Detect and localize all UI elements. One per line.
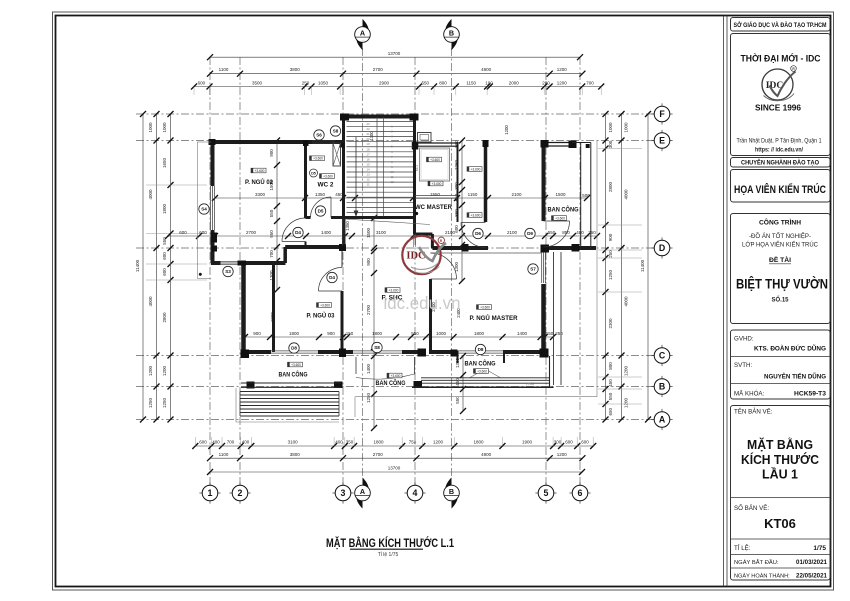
svg-text:1550: 1550 bbox=[430, 192, 441, 197]
stair cut line bbox=[345, 219, 430, 225]
grid bubble 3 bbox=[332, 492, 336, 494]
svg-text:F: F bbox=[659, 109, 665, 119]
svg-text:A: A bbox=[360, 487, 365, 496]
section axis B vertical bbox=[451, 48, 453, 478]
svg-text:350: 350 bbox=[346, 440, 354, 445]
svg-text:1350: 1350 bbox=[345, 221, 350, 231]
vent shaft with X bbox=[333, 143, 341, 166]
wall stair left bbox=[342, 117, 345, 249]
svg-text:3300: 3300 bbox=[255, 192, 266, 197]
interior dimension row upper bbox=[215, 197, 587, 199]
svg-text:2300: 2300 bbox=[608, 318, 613, 329]
wall bedroom3 shc divider grid3 bbox=[341, 250, 343, 267]
svg-text:1250: 1250 bbox=[148, 397, 153, 408]
svg-text:4900: 4900 bbox=[481, 67, 492, 72]
svg-text:P. NGỦ MASTER: P. NGỦ MASTER bbox=[470, 313, 518, 322]
label D8 a bbox=[289, 343, 299, 353]
svg-text:1000: 1000 bbox=[436, 331, 447, 336]
section marker A bottom bbox=[363, 478, 370, 498]
svg-text:400: 400 bbox=[335, 440, 343, 445]
eave outline bottom-left bbox=[235, 388, 237, 422]
svg-text:+3.600: +3.600 bbox=[313, 157, 323, 161]
svg-text:500: 500 bbox=[582, 193, 590, 198]
svg-text:2700: 2700 bbox=[373, 67, 384, 72]
svg-text:200: 200 bbox=[542, 81, 550, 86]
balcony jamb stubs bbox=[457, 351, 459, 363]
section marker A top bbox=[363, 19, 370, 39]
door D9 balcony arc bbox=[544, 220, 570, 222]
svg-text:E: E bbox=[659, 136, 665, 146]
stair side walls thin lower bbox=[342, 219, 344, 246]
title box logo section bbox=[731, 34, 831, 156]
svg-text:600: 600 bbox=[454, 225, 459, 233]
svg-text:2700: 2700 bbox=[366, 304, 371, 315]
svg-text:CHUYÊN NGHÀNH ĐÀO TẠO: CHUYÊN NGHÀNH ĐÀO TẠO bbox=[741, 158, 819, 167]
idc logo stamp circle bbox=[402, 236, 440, 274]
svg-text:+3.600: +3.600 bbox=[320, 303, 330, 307]
balcony rail vertical right bbox=[549, 356, 551, 387]
svg-text:11: 11 bbox=[366, 183, 369, 187]
svg-text:BIỆT THỰ VƯỜN: BIỆT THỰ VƯỜN bbox=[736, 275, 828, 292]
svg-text:150: 150 bbox=[546, 331, 554, 336]
lower-right envelope band bbox=[553, 252, 555, 385]
svg-text:1800: 1800 bbox=[473, 440, 484, 445]
svg-text:16: 16 bbox=[366, 157, 370, 161]
svg-text:+3.600: +3.600 bbox=[480, 305, 490, 309]
wall shc master divider bbox=[429, 279, 432, 354]
svg-text:SVTH:: SVTH: bbox=[734, 362, 753, 369]
eave outline left bbox=[196, 142, 198, 278]
wall grid D bedroom3 top bbox=[285, 245, 345, 249]
svg-text:+3.600: +3.600 bbox=[255, 169, 265, 173]
title box ten ban ve bbox=[731, 406, 831, 581]
shower zone wc master bbox=[420, 148, 450, 181]
wall left exterior lower bbox=[211, 230, 215, 263]
door master bedroom arc bbox=[431, 278, 457, 280]
svg-text:1800: 1800 bbox=[162, 203, 167, 214]
svg-text:BAN CÔNG: BAN CÔNG bbox=[376, 378, 406, 387]
label S8 mid bbox=[372, 342, 382, 352]
svg-text:450: 450 bbox=[608, 379, 613, 387]
stair stringer bbox=[376, 117, 378, 217]
svg-text:550: 550 bbox=[422, 81, 430, 86]
svg-text:Trần Nhật Duật, P Tân Định, Qu: Trần Nhật Duật, P Tân Định, Quận 1 bbox=[737, 139, 823, 145]
svg-text:D9: D9 bbox=[527, 231, 533, 236]
eave outline right bbox=[596, 140, 598, 397]
svg-text:3: 3 bbox=[341, 488, 346, 498]
window lines in bottom openings bbox=[271, 350, 318, 352]
svg-text:S4: S4 bbox=[201, 207, 207, 212]
svg-text:1500: 1500 bbox=[555, 192, 566, 197]
right dimension column level2 bbox=[621, 114, 623, 420]
wc2 small label D5 bbox=[310, 169, 318, 177]
right dimension column details bbox=[605, 114, 607, 420]
svg-text:1200: 1200 bbox=[557, 67, 568, 72]
door D5 wc2 arc bbox=[330, 197, 332, 218]
balcony rail top-right bbox=[580, 143, 582, 251]
svg-text:idc.edu.vn: idc.edu.vn bbox=[384, 293, 461, 313]
svg-text:KÍCH THƯỚC: KÍCH THƯỚC bbox=[741, 452, 819, 467]
bottom dimension chain level2 bbox=[210, 457, 582, 459]
svg-text:2800: 2800 bbox=[162, 312, 167, 323]
svg-text:22: 22 bbox=[366, 127, 370, 131]
title block logo R mark bbox=[791, 66, 797, 72]
window S3 bottom-left bbox=[221, 261, 238, 263]
svg-text:1400: 1400 bbox=[321, 230, 332, 235]
wall corridor east grid5 bbox=[542, 141, 546, 221]
elevation tags bbox=[251, 168, 266, 173]
svg-text:22/05/2021: 22/05/2021 bbox=[796, 573, 828, 580]
svg-text:750: 750 bbox=[409, 440, 417, 445]
svg-text:13700: 13700 bbox=[388, 51, 401, 56]
window S6 top wall bbox=[312, 139, 335, 141]
svg-text:Tỉ lệ 1/75: Tỉ lệ 1/75 bbox=[378, 551, 399, 558]
svg-text:10: 10 bbox=[390, 170, 394, 174]
svg-text:1200: 1200 bbox=[162, 365, 167, 376]
svg-text:P. NGỦ 02: P. NGỦ 02 bbox=[245, 177, 273, 186]
svg-text:5: 5 bbox=[544, 488, 549, 498]
svg-text:1800: 1800 bbox=[289, 331, 300, 336]
svg-text:HỌA VIÊN KIẾN TRÚC: HỌA VIÊN KIẾN TRÚC bbox=[734, 183, 826, 196]
wall bedroom2 wc2 divider bbox=[304, 142, 307, 218]
grid bubble 6 bbox=[569, 492, 573, 494]
svg-text:BAN CÔNG: BAN CÔNG bbox=[279, 370, 308, 379]
terrace eave lower bbox=[355, 396, 597, 398]
svg-text:600: 600 bbox=[199, 230, 207, 235]
svg-text:1000: 1000 bbox=[623, 122, 628, 133]
bottom dimension chain total 13700 bbox=[210, 471, 582, 473]
columns filled bbox=[209, 139, 216, 145]
svg-text:….: …. bbox=[450, 496, 454, 500]
svg-text:450: 450 bbox=[455, 378, 460, 386]
svg-text:CÔNG TRÌNH: CÔNG TRÌNH bbox=[759, 217, 801, 226]
svg-text:THỜI ĐẠI MỚI - IDC: THỜI ĐẠI MỚI - IDC bbox=[741, 53, 821, 64]
svg-text:1000: 1000 bbox=[608, 122, 613, 133]
svg-text:4000: 4000 bbox=[148, 296, 153, 307]
svg-text:….: …. bbox=[361, 38, 365, 42]
svg-text:6: 6 bbox=[578, 488, 583, 498]
balcony parapet bottom-right bbox=[421, 377, 550, 379]
label D4 a bbox=[293, 227, 303, 237]
svg-text:1300: 1300 bbox=[369, 131, 374, 141]
grid bubble E bbox=[651, 140, 655, 142]
svg-text:14: 14 bbox=[366, 167, 370, 171]
svg-text:+3.600: +3.600 bbox=[471, 213, 481, 217]
svg-text:WC MASTER: WC MASTER bbox=[415, 204, 452, 211]
small dot marker bbox=[199, 273, 202, 276]
svg-text:2900: 2900 bbox=[379, 81, 390, 86]
idc logo stamp R mark bbox=[438, 237, 444, 243]
wall jog x285 bbox=[283, 247, 287, 263]
svg-text:1/75: 1/75 bbox=[813, 545, 826, 552]
svg-text:13: 13 bbox=[366, 173, 370, 177]
label D9 bbox=[525, 228, 535, 238]
label S7 bbox=[528, 264, 538, 274]
svg-text:1800: 1800 bbox=[372, 331, 383, 336]
svg-text:2700: 2700 bbox=[373, 452, 384, 457]
svg-text:1300: 1300 bbox=[455, 357, 460, 368]
svg-text:1000: 1000 bbox=[148, 122, 153, 133]
title box so giao duc bbox=[731, 18, 831, 32]
wall corridor west bbox=[484, 142, 488, 222]
svg-text:B: B bbox=[449, 487, 454, 496]
right dimension column total 11400 bbox=[647, 114, 649, 420]
door D4 bedroom2 arc bbox=[282, 241, 306, 243]
svg-text:4000: 4000 bbox=[623, 189, 628, 200]
grid bubble C bbox=[651, 355, 655, 357]
svg-text:11: 11 bbox=[390, 175, 393, 179]
svg-text:600: 600 bbox=[565, 440, 573, 445]
svg-text:D6: D6 bbox=[475, 231, 481, 236]
label S3 bbox=[223, 266, 233, 276]
svg-text:15: 15 bbox=[366, 162, 370, 166]
top dimension chain details bbox=[194, 86, 601, 88]
svg-text:S8: S8 bbox=[333, 129, 339, 134]
svg-text:250: 250 bbox=[302, 81, 310, 86]
svg-text:600: 600 bbox=[199, 440, 207, 445]
svg-text:1900: 1900 bbox=[522, 440, 533, 445]
svg-text:1100: 1100 bbox=[219, 67, 229, 72]
svg-text:….: …. bbox=[450, 38, 454, 42]
svg-text:SỞ GIÁO DỤC VÀ ĐÀO TẠO TP.HCM: SỞ GIÁO DỤC VÀ ĐÀO TẠO TP.HCM bbox=[734, 20, 827, 29]
svg-text:900: 900 bbox=[608, 233, 613, 241]
svg-text:1400: 1400 bbox=[366, 363, 371, 374]
balcony door swing lines bbox=[470, 370, 484, 378]
svg-text:D4: D4 bbox=[295, 230, 301, 235]
door D4 bedroom3 arc bbox=[319, 290, 343, 292]
svg-text:1200: 1200 bbox=[433, 440, 444, 445]
svg-text:1200: 1200 bbox=[623, 365, 628, 376]
svg-text:TÊN BẢN VẼ:: TÊN BẢN VẼ: bbox=[734, 408, 773, 416]
svg-text:3800: 3800 bbox=[290, 452, 301, 457]
door S8 balcony swing bbox=[355, 357, 357, 374]
svg-text:600: 600 bbox=[179, 230, 187, 235]
svg-text:950: 950 bbox=[269, 230, 274, 238]
wall E between columns bbox=[548, 142, 570, 144]
grid bubble 1 bbox=[199, 492, 203, 494]
svg-text:550: 550 bbox=[548, 230, 556, 235]
svg-text:+3.600: +3.600 bbox=[323, 174, 333, 178]
svg-text:550: 550 bbox=[269, 209, 274, 217]
svg-text:11400: 11400 bbox=[640, 259, 645, 272]
svg-text:1100: 1100 bbox=[219, 452, 229, 457]
label S8 top bbox=[330, 126, 340, 136]
wall master right grid5 lower bbox=[541, 284, 546, 354]
grid axis horizontals A-F bbox=[136, 113, 654, 115]
svg-text:MẶT BẰNG KÍCH THƯỚC L.1: MẶT BẰNG KÍCH THƯỚC L.1 bbox=[326, 537, 454, 550]
balcony rail bottom-left bbox=[241, 382, 341, 384]
label D8 b bbox=[475, 344, 485, 354]
svg-text:20: 20 bbox=[366, 137, 370, 141]
svg-text:12: 12 bbox=[390, 180, 394, 184]
svg-text:BAN CÔNG: BAN CÔNG bbox=[548, 205, 579, 214]
svg-text:600: 600 bbox=[581, 440, 589, 445]
svg-text:KTS. ĐOÀN ĐỨC DŨNG: KTS. ĐOÀN ĐỨC DŨNG bbox=[754, 344, 826, 353]
svg-text:700: 700 bbox=[227, 440, 235, 445]
svg-text:B: B bbox=[659, 382, 665, 392]
wall stair right bbox=[413, 117, 416, 235]
svg-text:2100: 2100 bbox=[511, 192, 522, 197]
svg-text:1350: 1350 bbox=[315, 192, 326, 197]
svg-text:600: 600 bbox=[198, 81, 206, 86]
svg-text:300: 300 bbox=[608, 140, 613, 148]
svg-text:900: 900 bbox=[366, 258, 371, 266]
svg-text:S3: S3 bbox=[225, 269, 231, 274]
svg-text:https: // idc.edu.vn/: https: // idc.edu.vn/ bbox=[755, 148, 803, 154]
stair treads bbox=[347, 121, 414, 123]
svg-text:A: A bbox=[360, 29, 365, 38]
wc master tub partition bbox=[415, 195, 457, 197]
svg-text:C: C bbox=[659, 351, 666, 361]
wall bottom-left horizontal bbox=[211, 261, 221, 265]
svg-text:4000: 4000 bbox=[623, 296, 628, 307]
top stepout box bbox=[418, 133, 432, 143]
svg-text:2700: 2700 bbox=[246, 230, 257, 235]
svg-text:+3.600: +3.600 bbox=[389, 288, 399, 292]
svg-text:1200: 1200 bbox=[623, 397, 628, 408]
svg-text:+3.600: +3.600 bbox=[477, 369, 487, 373]
svg-text:D5: D5 bbox=[318, 209, 324, 214]
svg-text:550: 550 bbox=[608, 392, 613, 400]
svg-text:3100: 3100 bbox=[288, 440, 299, 445]
svg-text:D4: D4 bbox=[329, 275, 335, 280]
svg-text:B: B bbox=[449, 29, 454, 38]
svg-text:+3.600: +3.600 bbox=[291, 363, 301, 367]
title box chuyen nghanh bbox=[731, 158, 831, 168]
svg-text:1050: 1050 bbox=[318, 81, 329, 86]
svg-text:250: 250 bbox=[555, 331, 563, 336]
section marker B bottom bbox=[445, 478, 452, 498]
title box cong trinh bbox=[731, 214, 831, 324]
svg-text:600: 600 bbox=[162, 252, 167, 260]
grid bubble B bbox=[651, 386, 655, 388]
stair bottom wall bbox=[345, 216, 414, 219]
svg-text:400: 400 bbox=[212, 440, 220, 445]
svg-text:2: 2 bbox=[238, 488, 243, 498]
svg-text:A: A bbox=[659, 415, 666, 425]
svg-text:100: 100 bbox=[485, 81, 493, 86]
svg-text:P. NGỦ 03: P. NGỦ 03 bbox=[307, 311, 335, 320]
svg-text:1250: 1250 bbox=[162, 397, 167, 408]
wall grid D wc master bottom bbox=[432, 246, 488, 250]
interior dimension row lower bbox=[245, 336, 553, 338]
svg-text:S8: S8 bbox=[374, 345, 380, 350]
svg-text:1250: 1250 bbox=[608, 269, 613, 280]
wall top of wc master bbox=[415, 142, 458, 144]
svg-text:650: 650 bbox=[608, 407, 613, 415]
svg-text:D8: D8 bbox=[478, 347, 484, 352]
svg-text:800: 800 bbox=[439, 81, 447, 86]
svg-text:900: 900 bbox=[269, 149, 274, 157]
title box gvhd svth bbox=[731, 330, 831, 399]
svg-text:150: 150 bbox=[346, 331, 354, 336]
label S4 bbox=[199, 204, 209, 214]
svg-text:3100: 3100 bbox=[376, 230, 387, 235]
svg-text:4000: 4000 bbox=[148, 189, 153, 200]
svg-text:12: 12 bbox=[366, 178, 370, 182]
wall partition wc master closet bbox=[457, 142, 459, 222]
svg-text:900: 900 bbox=[253, 331, 261, 336]
svg-text:1200: 1200 bbox=[557, 81, 568, 86]
wall top of bedroom2 and wc2 grid E bbox=[211, 140, 344, 144]
wall top of stair block grid F bbox=[341, 115, 417, 119]
svg-text:BAN CÔNG: BAN CÔNG bbox=[465, 359, 496, 368]
svg-text:S7: S7 bbox=[530, 267, 536, 272]
svg-text:1: 1 bbox=[208, 488, 213, 498]
svg-text:1000: 1000 bbox=[162, 122, 167, 133]
svg-text:+3.600: +3.600 bbox=[432, 182, 442, 186]
grid bubble F bbox=[651, 113, 655, 115]
wall bottom band segments bbox=[244, 350, 272, 354]
svg-text:1150: 1150 bbox=[466, 81, 476, 86]
svg-text:1200: 1200 bbox=[504, 125, 509, 135]
svg-text:600: 600 bbox=[162, 268, 167, 276]
svg-text:900: 900 bbox=[327, 331, 335, 336]
svg-text:1400: 1400 bbox=[517, 331, 528, 336]
wall wc master jog bbox=[415, 233, 433, 236]
svg-text:17: 17 bbox=[366, 152, 370, 156]
section axis A vertical bbox=[362, 48, 364, 478]
svg-text:1500: 1500 bbox=[366, 227, 371, 238]
extension lines left chains bbox=[146, 184, 207, 186]
svg-text:2000: 2000 bbox=[509, 81, 520, 86]
left dimension column level2 bbox=[156, 114, 158, 420]
terrace steps bottom-left bbox=[240, 391, 339, 393]
svg-text:MẶT BẰNG: MẶT BẰNG bbox=[747, 437, 813, 452]
svg-text:2800: 2800 bbox=[608, 181, 613, 192]
svg-text:2100: 2100 bbox=[507, 230, 518, 235]
title block logo circle bbox=[762, 69, 793, 100]
wall bedroom3 left partition bbox=[272, 263, 275, 352]
label S6 bbox=[314, 130, 324, 140]
svg-text:21: 21 bbox=[366, 132, 370, 136]
svg-text:S4.1: S4.1 bbox=[415, 165, 419, 172]
svg-text:NGÀY BẮT ĐẦU:: NGÀY BẮT ĐẦU: bbox=[734, 558, 779, 566]
interior mini chain right balcony bbox=[462, 356, 464, 411]
svg-text:250: 250 bbox=[588, 230, 596, 235]
svg-text:400: 400 bbox=[242, 440, 250, 445]
svg-text:GVHD:: GVHD: bbox=[734, 336, 754, 343]
svg-text:SINCE 1996: SINCE 1996 bbox=[755, 104, 801, 113]
svg-text:+3.600: +3.600 bbox=[430, 158, 440, 162]
svg-text:LẦU 1: LẦU 1 bbox=[762, 467, 798, 482]
svg-text:D: D bbox=[659, 243, 665, 253]
wall left exterior upper bbox=[211, 140, 215, 186]
label D5 bbox=[315, 206, 325, 216]
svg-text:1650: 1650 bbox=[162, 157, 167, 168]
grid bubble D bbox=[651, 247, 655, 249]
svg-text:4900: 4900 bbox=[481, 452, 492, 457]
label D4 b bbox=[327, 272, 337, 282]
door D6 corridor arc bbox=[461, 222, 486, 224]
svg-text:+3.600: +3.600 bbox=[391, 374, 401, 378]
svg-text:HCK59-T3: HCK59-T3 bbox=[794, 391, 826, 398]
svg-text:1800: 1800 bbox=[474, 331, 485, 336]
svg-text:18: 18 bbox=[366, 147, 370, 151]
extension lines right chains bbox=[598, 148, 642, 150]
svg-text:4: 4 bbox=[413, 488, 418, 498]
title block left separator bbox=[723, 16, 725, 587]
section marker B top bbox=[445, 19, 452, 39]
svg-text:1200: 1200 bbox=[557, 452, 568, 457]
interior dimension column stair hall bbox=[276, 141, 278, 291]
stair landing dot bbox=[415, 212, 418, 215]
interior dimension column shc bay bbox=[373, 218, 375, 428]
stair up arrow bbox=[355, 137, 357, 213]
wall grid D right block top bbox=[545, 246, 596, 250]
svg-text:01/03/2021: 01/03/2021 bbox=[796, 559, 828, 566]
svg-text:MÃ KHÓA:: MÃ KHÓA: bbox=[734, 391, 765, 398]
